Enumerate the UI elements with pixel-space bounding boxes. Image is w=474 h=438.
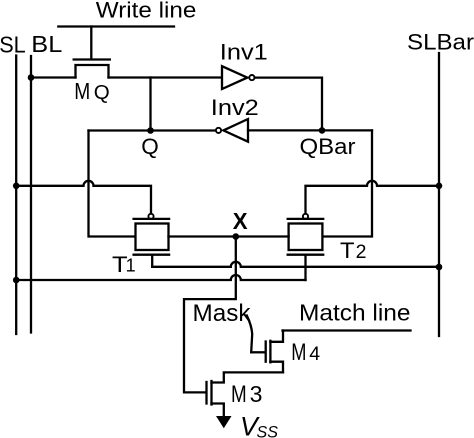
svg-text:T: T: [340, 238, 355, 263]
svg-text:Inv1: Inv1: [220, 39, 268, 64]
svg-text:SL: SL: [0, 32, 26, 58]
svg-text:4: 4: [309, 343, 320, 365]
svg-text:SS: SS: [257, 424, 279, 438]
svg-text:Mask: Mask: [193, 300, 252, 327]
svg-text:X: X: [233, 208, 248, 234]
svg-text:M: M: [231, 381, 247, 408]
svg-text:3: 3: [250, 381, 263, 407]
svg-text:M: M: [291, 339, 306, 366]
svg-text:Q: Q: [141, 134, 159, 159]
svg-text:SLBar: SLBar: [407, 30, 474, 55]
svg-text:Match line: Match line: [299, 300, 411, 326]
svg-text:M: M: [74, 78, 90, 104]
svg-text:BL: BL: [31, 31, 62, 57]
svg-text:1: 1: [126, 256, 136, 276]
svg-text:Inv2: Inv2: [211, 95, 259, 120]
svg-text:Write line: Write line: [96, 0, 197, 23]
svg-text:2: 2: [356, 241, 367, 263]
svg-text:Q: Q: [94, 81, 110, 104]
svg-text:QBar: QBar: [300, 134, 357, 159]
